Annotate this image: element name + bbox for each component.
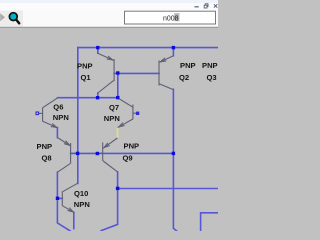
restore button: [204, 4, 208, 8]
svg-text:NPN: NPN: [74, 200, 90, 209]
svg-text:Q9: Q9: [123, 154, 133, 163]
wire base rail Q1-Q2: [114, 72, 159, 74]
svg-text:Q3: Q3: [207, 73, 217, 82]
schematic background: [0, 0, 218, 231]
window top strip: [0, 0, 218, 3]
toolbar background: [0, 11, 218, 28]
toolbar overflow chevron: [0, 13, 5, 21]
node Q10 base: [56, 197, 59, 200]
svg-text:n008: n008: [163, 15, 179, 22]
wire Q8 collector down to Q10 base: [57, 172, 70, 231]
node Q9 collector / output rail: [116, 187, 119, 190]
wire vertical x117 Q9 collector down: [101, 172, 117, 231]
wire Q10 base lead: [58, 197, 63, 199]
wire Q10 emitter down: [73, 212, 75, 228]
wire Q6 emitter to Q8 emitter: [56, 128, 58, 138]
wire vertical base-to-collector node: [117, 73, 119, 97]
node Q1 emitter / V+ rail: [96, 46, 99, 49]
node mid Q8-Q9 base rail: [96, 152, 99, 155]
svg-text:NPN: NPN: [104, 114, 120, 123]
svg-text:Q8: Q8: [42, 154, 52, 163]
port square Q7 base: [136, 112, 139, 115]
transistor Q6 NPN: [39, 98, 58, 128]
close button: [214, 4, 217, 7]
transistor Q8 PNP: [58, 138, 77, 173]
minimize button: [195, 6, 199, 7]
node x173 on Q8-Q9 base rail: [172, 152, 175, 155]
transistor Q9 PNP: [98, 138, 118, 172]
wire base rail Q8-Q9 y153: [71, 152, 174, 154]
transistor Q7 NPN: [118, 98, 136, 127]
node x78 on Q8-Q9 base rail: [76, 152, 79, 155]
node Q1-Q2 base tie: [116, 71, 119, 74]
net name edit box n008: [125, 11, 216, 24]
wire Q1 collector lead: [97, 93, 99, 98]
svg-text:Q6: Q6: [53, 103, 63, 112]
node Q2 emitter / V+ rail: [172, 46, 175, 49]
toolbar white field: [23, 11, 218, 27]
svg-text:PNP: PNP: [202, 61, 218, 70]
wire yellow highlighted segment Q7-Q9 emitters: [117, 128, 119, 139]
wire vertical x173 Q2 collector down: [173, 89, 176, 231]
svg-text:Q1: Q1: [81, 73, 92, 82]
svg-text:PNP: PNP: [180, 61, 196, 70]
wire top rail V+: [78, 47, 218, 49]
port square Q6 base: [36, 112, 39, 115]
node Q7 collector / base vertical on y98 rail: [116, 96, 119, 99]
svg-text:PNP: PNP: [77, 62, 93, 71]
wire Q1 emitter lead from node: [97, 48, 99, 54]
svg-text:PNP: PNP: [124, 142, 140, 151]
svg-text:PNP: PNP: [37, 142, 53, 151]
svg-text:Q7: Q7: [109, 103, 119, 112]
transistor Q10 NPN: [62, 183, 77, 212]
wire vertical x78 from top rail down to Q10 collector: [77, 48, 79, 184]
svg-text:Q10: Q10: [74, 189, 88, 198]
wire mirror rail y98: [58, 97, 118, 99]
transistor Q1 PNP: [98, 53, 118, 93]
svg-text:Q2: Q2: [179, 73, 189, 82]
node Q1 collector on y98 rail: [96, 96, 99, 99]
wire output rail y188: [118, 188, 218, 190]
toolbar bottom border: [0, 27, 218, 28]
magnifier icon: [9, 13, 19, 24]
transistor Q2 PNP: [159, 56, 173, 90]
wire Q2 emitter lead from node: [172, 48, 174, 56]
svg-text:NPN: NPN: [53, 113, 69, 122]
wire bottom right corner: [201, 213, 218, 231]
